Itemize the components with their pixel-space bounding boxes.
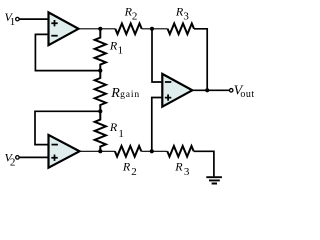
op-amp A2 minus marker <box>52 144 58 146</box>
junction node A2 out <box>98 149 102 153</box>
svg-text:out: out <box>240 89 254 100</box>
resistor R3 top <box>168 23 194 34</box>
op-amp A3 <box>162 74 192 107</box>
op-amp A1 <box>49 12 79 45</box>
resistor R3 bottom <box>167 146 193 157</box>
terminal V2 <box>16 156 20 160</box>
svg-text:R: R <box>109 38 118 52</box>
svg-text:2: 2 <box>10 156 16 168</box>
op-amp A2 <box>49 135 80 168</box>
terminal V1 <box>16 17 20 21</box>
op-amp A3 minus marker <box>165 81 171 83</box>
resistor R1 bottom (vertical) <box>95 111 106 151</box>
wire A1 output rail <box>79 28 116 30</box>
svg-text:R: R <box>110 86 120 101</box>
wire V1 input <box>19 18 48 20</box>
resistor R1 top (vertical) <box>95 29 106 71</box>
junction node A2 feedback <box>98 109 102 113</box>
junction node R2-R3 bottom <box>150 149 154 153</box>
wire inverting input A3 <box>152 29 162 82</box>
terminal Vout <box>229 89 233 93</box>
junction node A1 out <box>98 27 102 31</box>
op-amp A1 minus marker <box>51 35 57 37</box>
svg-text:2: 2 <box>131 166 137 178</box>
wire A2 feedback loop <box>35 111 100 144</box>
wire top rail R2-R3 <box>142 28 168 30</box>
wire A1 feedback loop <box>35 34 100 70</box>
svg-text:gain: gain <box>120 89 140 100</box>
junction node output <box>205 88 209 92</box>
resistor R2 top <box>115 23 141 34</box>
op-amp A3 plus marker <box>165 94 171 100</box>
wire A3 output <box>192 89 229 91</box>
svg-text:R: R <box>122 159 131 173</box>
wire A2 output rail <box>80 150 115 152</box>
junction node A1 feedback <box>98 69 102 73</box>
svg-text:3: 3 <box>184 166 190 178</box>
resistor Rgain (vertical) <box>95 71 106 112</box>
ground <box>206 177 222 183</box>
svg-text:R: R <box>174 159 183 173</box>
svg-text:2: 2 <box>132 11 138 23</box>
svg-text:1: 1 <box>118 128 124 140</box>
svg-text:R: R <box>109 120 118 134</box>
wire bottom rail R2-R3 <box>141 150 167 152</box>
op-amp A2 plus marker <box>51 155 57 161</box>
wire V2 input <box>19 156 48 158</box>
svg-text:3: 3 <box>183 11 189 23</box>
junction node R2-R3 top <box>150 27 154 31</box>
svg-text:1: 1 <box>118 45 124 57</box>
resistor R2 bottom <box>115 146 141 157</box>
op-amp A1 plus marker <box>51 20 57 26</box>
wire noninverting input A3 <box>152 98 163 152</box>
wire R3 to output node <box>194 29 207 91</box>
wire R3 to ground <box>194 151 214 176</box>
svg-text:1: 1 <box>10 16 16 28</box>
